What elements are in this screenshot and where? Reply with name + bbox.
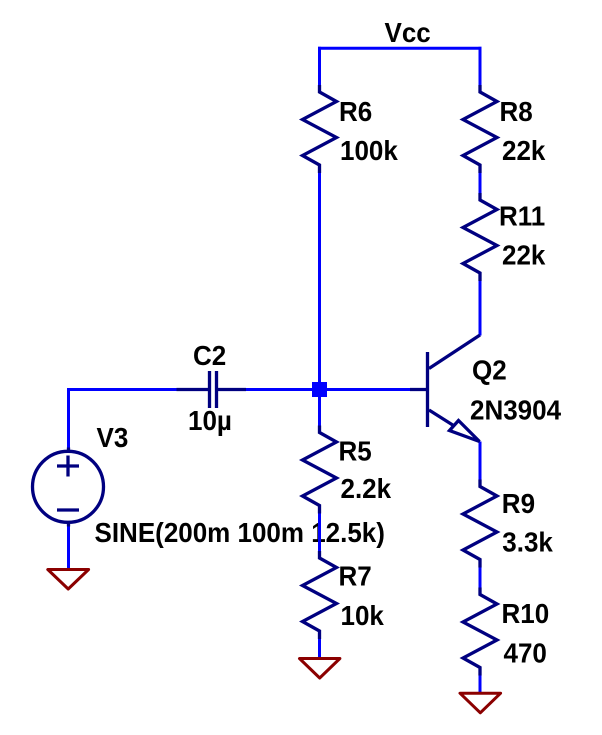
svg-text:C2: C2 (193, 340, 226, 371)
svg-text:R11: R11 (499, 201, 545, 232)
base bar (426, 352, 429, 427)
svg-text:V3: V3 (97, 422, 129, 453)
svg-text:R7: R7 (339, 561, 372, 592)
svg-text:R8: R8 (500, 96, 533, 127)
wire junction to R5 (318, 390, 321, 427)
transistor Q2 (410, 335, 480, 442)
svg-text:10k: 10k (341, 600, 384, 631)
emitter diagonal (429, 410, 454, 426)
wire R7 bottom to middle ground (318, 638, 321, 660)
svg-text:470: 470 (504, 638, 547, 669)
svg-text:R6: R6 (339, 96, 372, 127)
resistor R5 (303, 426, 337, 514)
svg-text:R10: R10 (502, 598, 550, 629)
svg-text:2.2k: 2.2k (341, 473, 392, 504)
svg-text:Vcc: Vcc (385, 17, 431, 48)
resistor R6 (303, 85, 337, 173)
ground (right, R10) (460, 693, 501, 713)
resistor R8 (463, 85, 497, 173)
wire V3 vertical top (67, 388, 70, 449)
wire C2 right to junction (246, 388, 320, 391)
wire junction to Q2 base (320, 388, 411, 391)
svg-text:2N3904: 2N3904 (470, 395, 561, 426)
wire R10 bottom to right ground (479, 675, 482, 695)
wire R6 bottom to junction (318, 172, 321, 390)
resistor R10 (463, 588, 497, 676)
resistor R7 (303, 551, 337, 639)
svg-text:22k: 22k (502, 135, 545, 166)
emitter arrow (450, 421, 480, 442)
ground (V3) (48, 570, 89, 590)
svg-text:R9: R9 (502, 488, 535, 519)
wire Vcc top horizontal (318, 47, 482, 50)
svg-text:10µ: 10µ (188, 405, 232, 436)
voltage source V3 (33, 448, 104, 527)
resistor R9 (463, 480, 497, 568)
junction node square (312, 382, 327, 397)
wire left drop from Vcc to R6 (318, 47, 321, 86)
svg-text:R5: R5 (339, 436, 372, 467)
wire V3 top to C2 left (69, 388, 178, 391)
resistor R11 (463, 193, 497, 281)
wire R8 bottom to R11 top (479, 172, 482, 194)
wire Q2 emitter down to R9 (479, 442, 482, 481)
wire R9 bottom to R10 top (479, 567, 482, 589)
collector diagonal (429, 335, 480, 369)
svg-text:Q2: Q2 (472, 355, 507, 386)
svg-text:22k: 22k (502, 240, 545, 271)
wire R5 bottom to R7 top (318, 513, 321, 553)
svg-text:3.3k: 3.3k (502, 527, 553, 558)
capacitor C2 (177, 371, 247, 408)
wire R11 bottom to Q2 collector (479, 280, 482, 336)
ground (middle, R7) (300, 659, 340, 679)
svg-text:SINE(200m 100m 12.5k): SINE(200m 100m 12.5k) (95, 517, 385, 548)
wire V3 bottom to ground (67, 526, 70, 571)
wire right drop from Vcc to R8 (479, 47, 482, 86)
base lead (410, 388, 428, 391)
svg-text:100k: 100k (340, 135, 398, 166)
